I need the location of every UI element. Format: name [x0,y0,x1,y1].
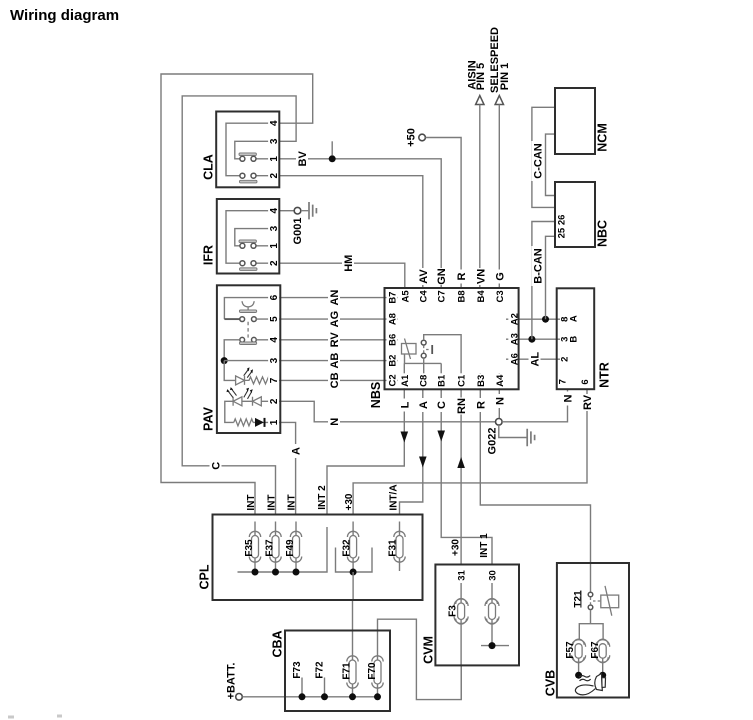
svg-text:6: 6 [580,379,591,384]
ground G022 [527,429,534,446]
svg-text:RV: RV [329,332,341,348]
PAV internal rail pin2 to pin1 [225,401,234,422]
box CVM [435,565,519,666]
svg-text:C: C [211,462,223,470]
NBS pin C3 [494,289,506,304]
IFR internal wire pin3 to switch [235,229,279,246]
label A (PAV) [290,444,303,458]
svg-text:INT: INT [286,494,297,510]
CLA switch contact bar pin2 (open) [240,180,258,183]
svg-text:G022: G022 [487,428,499,455]
svg-text:F37: F37 [265,539,276,557]
node F67 [599,672,606,679]
svg-text:VN: VN [475,269,487,284]
wire RN: NBS C1 to CVM pin31 [460,389,462,564]
CLA switch pin1 wire [256,158,279,160]
box NTR [557,288,595,389]
label PIN 1 [499,63,511,91]
fuse F70 [378,619,462,699]
svg-text:IFR: IFR [202,245,216,265]
arrow RN up [457,457,465,468]
NBS pin B6 [387,332,399,347]
fuse CVM pin30 [491,583,493,646]
svg-text:CLA: CLA [202,154,216,180]
svg-text:R: R [475,401,487,409]
NBS contact circles [421,340,426,345]
wire A2 to NTR pin8 [519,318,557,320]
label CPL [198,564,212,589]
svg-text:G001: G001 [292,218,304,245]
PAV pin 5 [268,311,280,323]
svg-text:C-CAN: C-CAN [532,143,544,178]
node F49 [293,569,300,576]
svg-text:N: N [329,418,341,426]
label BV [296,150,309,167]
svg-text:+30: +30 [451,539,462,556]
svg-text:INT: INT [266,494,277,510]
PAV pin 2 [268,394,280,406]
fuse F35 [254,522,256,573]
arrow C down [437,431,445,442]
svg-text:L: L [399,401,411,408]
svg-text:BV: BV [297,150,309,166]
PAV pin4 switch bar (open) [239,342,256,345]
svg-text:PIN 1: PIN 1 [499,63,511,91]
svg-text:NCM: NCM [596,123,610,151]
fuse F49 [295,522,297,573]
wire A: PAV pin1 to CPL INT [280,422,295,514]
PAV internal rail to pin7 LED [224,361,235,381]
svg-text:C8: C8 [418,375,429,387]
NBS pin A3 [508,332,520,347]
wire N: PAV pin2 to ground node [280,401,495,422]
label NTR [598,362,612,388]
wire CLA pin3 to CPL INT loop (net C) [182,96,296,515]
CBA F72 stub [324,678,326,697]
label C-CAN [531,141,544,181]
NBS pin C4 [418,289,430,304]
NTR net A [569,315,580,322]
label NBS [369,382,383,408]
label T21 underlined [573,590,584,608]
PAV pin 3 [268,353,280,365]
box NBS [385,288,519,389]
NTR pin7 stub [567,389,569,396]
PAV pin7 LED [236,376,245,385]
svg-text:31: 31 [457,570,468,581]
svg-text:NTR: NTR [598,362,612,388]
label INT 1st [246,494,257,510]
label CBA [271,630,285,657]
label +30 (CPL) [344,493,355,510]
svg-text:F49: F49 [285,539,296,557]
NBS pin B3 [475,373,487,388]
PAV pin5 manual actuator bar [239,310,256,313]
CLA pin 2 [268,168,280,180]
wire RV: NTR pin6 to CPL +30 [353,389,587,514]
PAV pin 7 [268,373,280,385]
wire F3 down to F70 net [460,665,462,699]
label PIN 5 [475,63,487,91]
CLA switch contact bar pin1 (closed) [239,153,256,156]
svg-text:CB: CB [329,372,341,388]
wire R: NBS B3 to CVB [480,389,590,563]
relay T21 contacts [588,592,593,597]
node F35 [252,569,259,576]
NBS pin B7 [387,290,399,305]
svg-text:1: 1 [269,419,280,425]
wire IFR pin4 to G001 [279,210,294,212]
NBS right pin stubs [506,319,519,359]
svg-text:C2: C2 [388,374,399,386]
svg-text:Wiring diagram: Wiring diagram [10,7,119,24]
PAV pin4 switch contacts [240,337,245,342]
svg-text:F57: F57 [565,641,576,659]
label N (A4) [493,394,506,408]
IFR internal wire pin4 to switch [226,211,279,264]
NBS pin B8 [456,289,468,304]
PAV mechanical link dashed [247,322,249,338]
ground G022 lead [499,425,527,437]
box NBC [555,182,595,247]
node F72 [321,693,328,700]
svg-text:B3: B3 [476,375,487,387]
svg-text:4: 4 [269,337,280,343]
label IFR [202,245,216,265]
IFR switch contact bar pin2 (open) [240,268,258,271]
PAV pin7 resistor [245,377,281,384]
label R [474,398,487,412]
wire A3 to NTR pin3 [519,338,557,340]
relay T21 coil [601,595,619,608]
node F73 [299,693,306,700]
NTR pin 8 [560,317,571,322]
PAV pin5 actuator stem and cup [242,301,254,310]
NBS pin C2 [387,373,399,388]
svg-text:CPL: CPL [198,564,212,589]
svg-text:B-CAN: B-CAN [532,248,544,283]
label INT 1 [479,533,490,558]
+BATT terminal circle [236,694,243,701]
PAV pin 1 [268,415,280,427]
fuse F57 [578,658,580,675]
svg-text:B: B [569,336,580,343]
svg-text:AL: AL [530,352,542,367]
wire BV stub up [331,141,333,155]
box NCM [555,88,595,154]
box CVB [557,563,629,698]
svg-text:3: 3 [269,357,280,363]
PAV pin5 switch wire to pin [256,318,280,320]
label N [328,415,341,429]
fuse F37 [275,522,277,573]
svg-text:F67: F67 [590,641,601,659]
NTR pin stubs left [557,319,560,359]
svg-text:N: N [494,397,506,405]
CLA pin 1 [268,151,280,163]
PAV pin7 LED arrows [244,370,252,378]
svg-text:T21: T21 [573,590,584,608]
svg-text:PAV: PAV [202,406,216,431]
svg-text:F71: F71 [342,662,353,680]
label HM [342,254,355,272]
wire AG: PAV pin5 to NBS A8 [280,318,384,320]
CVM pin 31 [456,569,468,583]
NTR pin 2 [560,357,571,362]
svg-text:F31: F31 [388,539,399,557]
PAV pin 4 [268,332,280,344]
NBS pin A5 [400,289,412,304]
NBS contact link dashed and T bar [426,349,430,351]
IFR pin 2 [268,256,280,268]
svg-text:B6: B6 [388,334,399,346]
svg-text:2: 2 [560,357,571,362]
label AV [417,268,430,285]
wire CB: PAV pin7 to NBS C2 [280,379,384,381]
PAV pin1 resistor [234,419,253,426]
svg-text:AB: AB [329,353,341,369]
svg-text:C: C [436,401,448,409]
NTR pin 7 [558,379,569,384]
wire AN: PAV pin6 to NBS B7 [280,297,384,299]
box CBA [285,631,390,712]
CLA switch contacts pin1 [240,156,245,161]
wire B-CAN line 2: NBC to A2 node [546,236,556,319]
CLA pin 3 [268,134,280,146]
IFR switch contact bar pin1 (closed) [239,240,256,243]
svg-text:B1: B1 [437,374,448,387]
CLA internal wire pin4 to switch [226,123,279,176]
svg-text:A4: A4 [495,374,506,387]
node F70 [374,693,381,700]
PAV internal wire pin3 [224,360,280,362]
NBS pin A6 [508,352,520,367]
PAV internal wire pin4 switch to pin3 node [224,340,240,361]
wire BV: CLA pin1 to NBS C7 [279,159,441,288]
label net C [210,459,223,472]
svg-text:AN: AN [329,290,341,306]
+50 terminal circle [419,134,426,141]
CPL F32 bracket [336,548,373,573]
NBS relay coil [402,344,417,355]
NBS contact wire to C8 [423,358,425,389]
PAV pin2 LED2 arrows [244,390,252,399]
svg-text:F70: F70 [367,662,378,680]
wire AL: A6 to NTR pin2 [519,358,557,360]
svg-text:C1: C1 [457,374,468,387]
CLA switch pin2 wire [256,175,279,177]
NTR pin 6 [580,379,591,384]
svg-text:7: 7 [558,379,569,384]
PAV pin2 LED 1 [233,397,242,406]
CBA F73 stub [301,678,303,697]
node F57 [575,672,582,679]
wire AV: CLA pin2 to NBS C4 [279,176,423,288]
svg-text:N: N [563,394,575,402]
PAV pin2 LED 2 [253,397,262,406]
label CLA [202,154,216,180]
svg-text:A8: A8 [388,313,399,325]
NBS relay coil lead and bracket to A1 B1 [404,354,441,389]
wire N junction to NTR pin7 [502,404,567,422]
svg-text:G: G [494,272,506,281]
label RV (NTR pin6) [581,394,594,411]
relay T21 contact dashes [591,598,601,605]
PAV pin 6 [268,290,280,302]
svg-text:C7: C7 [437,290,448,302]
NBS contact dashes [423,346,425,353]
IFR switch pin1 wire [256,245,279,247]
CPL internal bus [238,527,328,572]
node B-CAN on A2 wire [542,316,549,323]
svg-text:RN: RN [456,398,468,414]
wire HM: IFR pin2 to NBS A5 [279,263,405,288]
svg-text:7: 7 [269,377,280,383]
fuse F31 [399,522,401,572]
svg-text:A1: A1 [400,374,411,387]
NBS pin B2 [387,353,399,368]
svg-text:+BATT.: +BATT. [226,663,238,700]
PAV pin5 switch contacts [240,317,245,322]
node BV junction [329,155,336,162]
svg-text:F35: F35 [244,539,255,557]
svg-text:NBC: NBC [596,220,610,247]
wire B-CAN line 1: NBC to A3 node [532,222,555,340]
NBS contact wire to C1 [424,335,461,390]
label G022 [487,428,499,455]
svg-text:CBA: CBA [271,630,285,657]
label R (B8 wire) [455,270,468,284]
NBS pin A2 [508,312,520,327]
label PAV [202,406,216,431]
NBS pin B4 [475,289,487,304]
svg-text:B4: B4 [476,290,487,303]
svg-text:A: A [418,401,430,409]
node PAV pin3 junction [221,357,228,364]
wire N: NBS A4 to ground node [498,389,500,418]
svg-text:F32: F32 [341,539,352,557]
svg-text:+30: +30 [344,493,355,510]
svg-text:GN: GN [436,268,448,285]
wire L: NBS A1 to CPL INT 2 [327,389,404,514]
label SELESPEED [489,27,501,93]
svg-text:RV: RV [582,394,594,410]
svg-text:25 26: 25 26 [557,215,568,239]
label INT 3rd [286,494,297,510]
label AB [328,352,341,369]
wire C-CAN line 2: NCM to NBC [546,134,556,195]
PAV pin2 LED wires [242,400,280,402]
svg-text:INT/A: INT/A [389,484,400,510]
svg-text:2: 2 [269,398,280,404]
svg-text:B8: B8 [457,290,468,302]
label CB [328,372,341,389]
NBS pin C8 [417,373,429,388]
NBS top pin stubs [405,288,500,303]
svg-text:C4: C4 [418,290,429,303]
label AG [328,311,341,328]
PAV pin4 switch wire to pin [256,339,280,341]
wire +50 to NBS B8 [425,138,461,289]
node F32 [350,569,357,576]
PAV internal wire pin6 to pin5 switch [224,298,279,320]
NBS pin A4 [494,373,506,388]
CVB entry wire to T21 contact [590,563,592,592]
node N junction circle [496,419,503,426]
PAV pin1 diode (filled) [255,418,264,427]
NBS pin A8 [387,312,399,327]
label VN [474,268,487,285]
connector triangle AISIN PIN 5 [476,96,484,105]
label AL [529,351,542,367]
node CVM pin30 [489,642,496,649]
ground G001 [301,210,309,212]
label B-CAN [531,246,544,286]
CLA internal wire pin3 to switch [235,141,279,159]
wire F32 to CBA F71 [352,572,354,600]
NBS pin B1 [436,373,448,388]
box IFR [217,199,279,274]
svg-text:AG: AG [329,311,341,328]
label C [435,398,448,412]
NTR net B [569,336,580,343]
wire C: NBS B1 to CVM pin30 [441,389,492,564]
box CPL [213,515,423,601]
IFR switch contacts pin1 [240,243,245,248]
node B-CAN on A3 wire [528,336,535,343]
svg-text:R: R [456,272,468,280]
bottom cut text marks [8,716,14,719]
PAV pin1 wire [253,421,280,423]
svg-text:PIN 5: PIN 5 [475,63,487,91]
node F37 [272,569,279,576]
IFR pin 3 [268,221,280,233]
IFR pin 4 [268,203,280,215]
svg-text:INT 2: INT 2 [317,485,328,510]
label +BATT. [226,663,238,700]
NTR pin 3 [560,337,571,342]
label L [398,399,411,412]
CLA pin 4 [268,116,280,128]
label +30 (CVM) [451,539,462,556]
label NCM [596,123,610,151]
label INT/A [389,484,400,510]
IFR switch contacts pin2 [240,261,245,266]
svg-text:CVB: CVB [544,670,558,696]
label INT 2 [317,485,328,510]
NBS pin A1 [399,373,411,388]
label A [417,398,430,412]
label RN [455,398,468,415]
NBS left pin stubs [385,298,399,381]
wire SELESPEED to NBS C3 [498,105,500,289]
svg-text:HM: HM [343,255,355,272]
fuse F32 [352,522,354,573]
ground G001 circle [294,207,301,214]
horn icon [575,674,605,695]
NBS pin C7 [436,289,448,304]
NBC pins 25 26 [557,215,568,239]
svg-text:C3: C3 [495,290,506,302]
IFR pin 1 [268,238,280,250]
label N (NTR pin7) [562,392,575,406]
CVM pin30 termination bar [481,645,509,647]
label AISIN [466,60,478,89]
CLA switch contacts pin2 [240,173,245,178]
svg-text:5: 5 [269,316,280,322]
label CVB [544,670,558,696]
label G001 [292,218,304,245]
